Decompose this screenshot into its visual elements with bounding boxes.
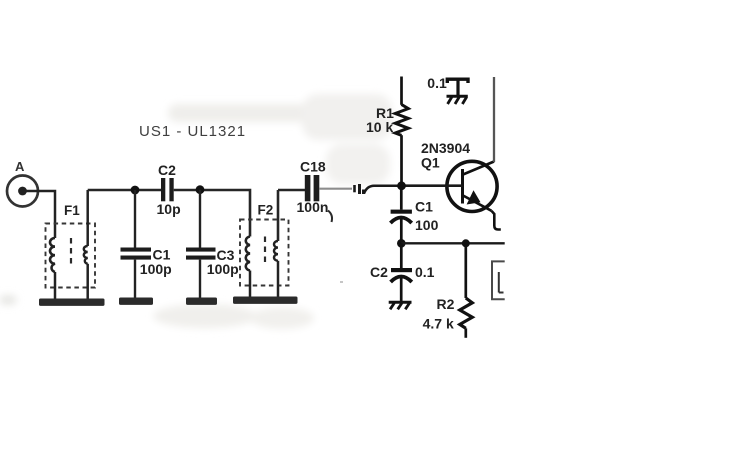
wire emitter junction to right (401, 242, 504, 244)
base bar (461, 169, 464, 204)
capacitor C1 100 (coupling) (390, 186, 438, 233)
wire terminal A to F1 (26, 191, 55, 238)
wire bus F1 to C2 (88, 189, 161, 192)
node junction 2 (196, 185, 205, 194)
svg-text:F1: F1 (64, 203, 80, 218)
wire collector to supply (493, 77, 495, 162)
capacitor C2 10p (157, 162, 181, 217)
emitter stroke (463, 196, 492, 211)
svg-text:100p: 100p (207, 261, 239, 277)
capacitor C18 100n (297, 159, 333, 223)
svg-text:10p: 10p (157, 201, 181, 217)
wire coupling to base node (364, 186, 402, 194)
wire R1 to base node (400, 135, 403, 186)
svg-text:100p: 100p (140, 261, 172, 277)
wire C2 to ground (400, 277, 403, 301)
wire junction 2 to C3 (199, 190, 201, 248)
wire F1 secondary to bus (86, 190, 89, 246)
wire F2 primary to ground (249, 271, 252, 298)
wire junction 1 to C1 (134, 190, 136, 248)
svg-text:F2: F2 (258, 203, 274, 218)
capacitor C3 100p (186, 247, 239, 277)
svg-text:Q1: Q1 (421, 155, 440, 171)
node base junction (397, 181, 406, 190)
svg-text:R2: R2 (437, 296, 455, 312)
wire C1 to emitter junction (400, 219, 403, 244)
decorative scan blotches (0, 94, 392, 329)
wire F2 secondary to bus (278, 190, 305, 241)
node junction 1 (131, 186, 140, 195)
resistor R1 10k (366, 77, 408, 136)
svg-text:10 k: 10 k (366, 119, 393, 135)
svg-text:0.1: 0.1 (415, 264, 435, 280)
terminal A (7, 159, 38, 207)
wire emitter down with hook (492, 211, 501, 230)
capacitor 0.1 bypass (427, 75, 468, 96)
F2 secondary coil (274, 241, 278, 261)
node emitter junction (397, 239, 406, 248)
svg-text:4.7 k: 4.7 k (423, 315, 454, 331)
svg-text:US1 - UL1321: US1 - UL1321 (139, 123, 246, 140)
F2 core (264, 237, 266, 267)
svg-text:C2: C2 (158, 162, 176, 178)
wire F2 secondary bottom to ground (277, 261, 280, 297)
capacitor C2 0.1 (370, 243, 435, 282)
wire F1 primary to ground (54, 272, 57, 299)
wire base node to Q1 base (403, 184, 463, 187)
capacitor C1 100p (121, 247, 172, 278)
ground bar under F1 (39, 299, 105, 306)
ground chassis for 0.1 (447, 96, 468, 104)
node R2 junction (462, 239, 470, 247)
filter F2 (240, 203, 289, 286)
wire C3 to ground (199, 260, 201, 298)
F1 primary coil (50, 238, 55, 272)
collector stroke (463, 162, 494, 175)
transistor Q1 2N3904 (421, 140, 497, 212)
svg-text:C18: C18 (300, 159, 326, 175)
ground bar under F2 (233, 297, 298, 304)
resistor R2 4.7k (423, 243, 473, 337)
F1 core (70, 238, 72, 268)
partially erased coupling marks (355, 184, 364, 194)
svg-text:A: A (15, 159, 25, 174)
box fragment (cropped block) (492, 261, 505, 299)
svg-text:100: 100 (415, 217, 439, 233)
F2 primary coil (246, 237, 250, 271)
ground chassis for C2 (389, 302, 412, 309)
ground bar under C3 (186, 298, 217, 305)
filter F1 (46, 203, 96, 288)
wire C18 to coupling marks (faded) (319, 188, 352, 190)
wire C1 to ground (134, 260, 136, 298)
svg-text:100n: 100n (297, 199, 329, 215)
svg-text:C1: C1 (415, 198, 433, 214)
F1 secondary coil (84, 246, 88, 264)
emitter arrow (467, 190, 481, 204)
wire C2 to junction 2 and F2 (174, 190, 250, 237)
svg-text:C2: C2 (370, 264, 388, 280)
wire F1 secondary bottom to ground (86, 264, 89, 299)
svg-text:0.1: 0.1 (427, 75, 447, 91)
ground bar under C1 (119, 298, 153, 305)
svg-text:2N3904: 2N3904 (421, 140, 470, 156)
svg-text:C1: C1 (153, 247, 171, 263)
